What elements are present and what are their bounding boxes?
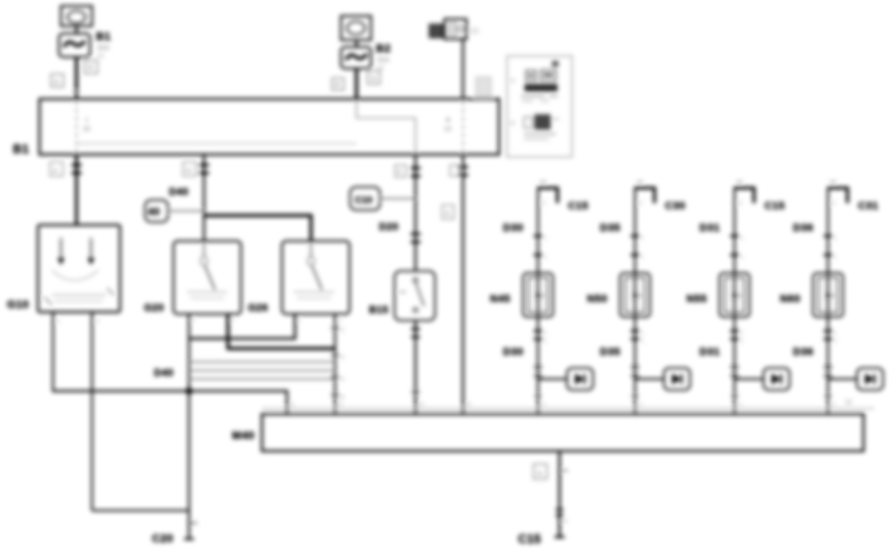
- svg-text:B2: B2: [376, 43, 391, 55]
- connector M1 body: [445, 19, 467, 39]
- connector hook top: [735, 188, 755, 203]
- svg-text:4: 4: [341, 355, 344, 361]
- inline connector ticks: [411, 329, 420, 337]
- connector D40 symbol: [145, 200, 168, 222]
- junction dot: [186, 388, 193, 395]
- svg-text:30A: 30A: [97, 45, 110, 52]
- pin tick top: [540, 181, 546, 183]
- wire code box: [183, 162, 196, 176]
- svg-text:N: N: [537, 471, 542, 478]
- svg-text:N45: N45: [490, 293, 510, 305]
- svg-text:1: 1: [834, 255, 837, 261]
- svg-text:2: 2: [339, 318, 342, 324]
- svg-text:1: 1: [641, 236, 644, 242]
- svg-text:D31: D31: [700, 346, 720, 358]
- fuse value labels: [97, 45, 110, 60]
- sender G26: [282, 241, 350, 314]
- svg-text:1: 1: [741, 255, 744, 261]
- fuse F2: [341, 47, 371, 69]
- wire B15 to M40: [414, 321, 416, 415]
- wire B1 to G20: [203, 155, 205, 242]
- svg-text:12: 12: [845, 400, 852, 406]
- wire end tick: [555, 536, 565, 538]
- wire vertical N55: [734, 187, 736, 414]
- fusebox B1 body: [40, 99, 500, 155]
- connector hook top: [635, 188, 655, 203]
- inline connector ticks: [411, 234, 421, 242]
- svg-text:D30: D30: [503, 346, 523, 358]
- wire bottom horizontal: [92, 510, 189, 512]
- svg-text:1: 1: [85, 117, 89, 124]
- svg-text:1: 1: [641, 331, 644, 337]
- connector M1 shell: [430, 25, 444, 38]
- svg-text:30: 30: [83, 126, 91, 133]
- wire color code box right: [85, 61, 98, 74]
- ignition device symbol top-middle: [341, 16, 371, 40]
- connector ticks: [731, 367, 739, 376]
- svg-text:D36: D36: [793, 222, 813, 234]
- svg-text:1: 1: [834, 331, 837, 337]
- wire end tick C20: [184, 538, 194, 540]
- inline connector ticks: [556, 510, 568, 522]
- connector hook top: [828, 188, 848, 203]
- M40 pin numbers: [291, 400, 852, 408]
- svg-text:N55: N55: [687, 293, 707, 305]
- body computer M40: [262, 414, 864, 451]
- internal faint bus line: [77, 143, 357, 145]
- relay G10: [38, 225, 120, 312]
- svg-text:1: 1: [192, 318, 195, 324]
- ground symbol: [764, 368, 790, 390]
- faint multi-wire lines: [189, 362, 335, 379]
- ignition device symbol top-left: [61, 6, 92, 26]
- wire: [75, 26, 77, 34]
- inline connector ticks: [458, 167, 468, 175]
- wire down to B1: [75, 57, 78, 100]
- tick: [731, 395, 738, 397]
- svg-text:1: 1: [641, 255, 644, 261]
- svg-text:2: 2: [341, 328, 344, 334]
- inline connector ticks: [631, 236, 645, 261]
- pin mark: [72, 91, 80, 93]
- branch wire to ground: [828, 378, 857, 380]
- wire color code box left: [51, 74, 64, 87]
- svg-text:R: R: [88, 65, 93, 72]
- pin tick top: [737, 181, 743, 183]
- shaded tag above B1: [476, 77, 491, 97]
- inline connector ticks: [72, 165, 82, 173]
- inline connector ticks: [824, 236, 838, 261]
- connector link wire: [168, 210, 204, 212]
- svg-text:(2): (2): [470, 28, 479, 35]
- pin label B: [444, 117, 452, 133]
- svg-text:B1: B1: [96, 31, 111, 43]
- wire to M40 horizontal: [53, 391, 287, 414]
- svg-text:1: 1: [544, 339, 547, 345]
- connector ticks: [824, 367, 832, 376]
- svg-text:B1: B1: [13, 142, 29, 156]
- svg-text:D20: D20: [379, 222, 399, 233]
- wire code box: [442, 205, 454, 219]
- svg-text:B: B: [398, 170, 402, 176]
- connector ticks: [534, 367, 542, 376]
- label C10: [350, 187, 380, 210]
- wire M1 down to M40: [462, 155, 464, 415]
- inline connector ticks: [824, 331, 838, 345]
- tick: [535, 395, 542, 397]
- svg-text:8: 8: [341, 395, 344, 401]
- connector ticks: [631, 367, 639, 376]
- svg-text:D31: D31: [700, 222, 720, 234]
- inline connector ticks: [730, 331, 744, 345]
- svg-text:C31: C31: [858, 200, 878, 212]
- svg-text:1: 1: [57, 319, 60, 325]
- component N50: [620, 273, 650, 317]
- svg-text:1: 1: [834, 339, 837, 345]
- connector link wire: [380, 198, 416, 200]
- svg-text:1: 1: [544, 331, 547, 337]
- svg-text:1: 1: [834, 236, 837, 242]
- legend small text rows: [521, 96, 558, 101]
- branch wire to ground: [735, 378, 764, 380]
- svg-text:30A: 30A: [377, 57, 390, 64]
- connector hook top: [538, 188, 558, 203]
- tick: [412, 391, 420, 393]
- svg-text:A: A: [53, 168, 58, 175]
- inline connector ticks: [199, 165, 209, 173]
- legend icon 2: [524, 115, 559, 129]
- svg-text:1: 1: [641, 339, 644, 345]
- svg-text:3: 3: [639, 402, 642, 408]
- svg-text:D40: D40: [169, 187, 189, 198]
- svg-text:2: 2: [231, 318, 234, 324]
- ground symbol: [664, 368, 690, 390]
- svg-text:1: 1: [298, 318, 301, 324]
- branch wire to ground: [538, 378, 567, 380]
- tick: [825, 395, 832, 397]
- inline connector ticks dark: [411, 168, 421, 176]
- svg-text:R: R: [445, 211, 450, 218]
- switch B15: [395, 271, 436, 321]
- G10 pin ticks: [57, 319, 99, 325]
- svg-text:G20: G20: [144, 303, 164, 314]
- svg-text:C10: C10: [355, 195, 373, 205]
- svg-text:G26: G26: [248, 303, 268, 314]
- svg-text:10: 10: [97, 54, 104, 60]
- svg-text:B15: B15: [369, 305, 389, 316]
- inline connector ticks: [534, 236, 548, 261]
- wire code box: [50, 162, 63, 176]
- wire link G20pin1-G26pin1: [189, 314, 295, 339]
- svg-text:6: 6: [341, 377, 344, 383]
- tick near C20: [190, 522, 197, 524]
- wire link G20pin2-G26pin2 thick: [228, 314, 335, 349]
- ground symbol: [567, 368, 593, 390]
- ground symbol: [857, 368, 883, 390]
- svg-text:2: 2: [339, 402, 342, 408]
- fuse F1: [59, 34, 90, 58]
- inline connector ticks: [730, 236, 744, 261]
- wire color code box left: [332, 78, 344, 90]
- svg-text:15: 15: [444, 126, 452, 133]
- internal routed wire: [357, 100, 416, 153]
- legend title bar: [525, 85, 557, 92]
- connector ticks on wire: [331, 328, 344, 401]
- legend inset box: [507, 56, 572, 157]
- svg-text:N: N: [186, 168, 191, 175]
- inline connector ticks: [631, 331, 645, 345]
- wire color code box right: [368, 71, 381, 84]
- pin label 1 (+30): [83, 117, 91, 133]
- svg-text:D30: D30: [503, 222, 523, 234]
- tick: [632, 395, 639, 397]
- branch wire to ground: [635, 378, 664, 380]
- wire down through B1: [462, 39, 464, 100]
- svg-text:C20: C20: [152, 533, 173, 545]
- svg-text:B: B: [446, 117, 450, 124]
- wire G10 pin1 down: [52, 312, 54, 392]
- G20 G26 pin ticks: [192, 318, 342, 324]
- wire B1 pinB down: [414, 155, 416, 272]
- wire vertical N50: [634, 187, 636, 414]
- svg-text:3: 3: [420, 402, 423, 408]
- wire B1 pin1 to G10: [75, 155, 78, 226]
- wire code box small: [450, 165, 459, 176]
- svg-text:D40: D40: [154, 368, 174, 379]
- internal pass-through wire dashed left: [76, 101, 78, 153]
- wire G20 pin1 down to C20: [188, 314, 190, 539]
- wire: [355, 40, 357, 47]
- svg-text:A: A: [54, 79, 59, 86]
- svg-text:N60: N60: [780, 293, 800, 305]
- svg-text:1: 1: [544, 255, 547, 261]
- svg-text:1: 1: [741, 236, 744, 242]
- svg-text:M40: M40: [232, 430, 255, 442]
- svg-text:3: 3: [832, 402, 835, 408]
- internal pass-through wire dashed right: [462, 101, 464, 153]
- svg-text:1: 1: [291, 402, 294, 408]
- svg-text:C15: C15: [765, 200, 785, 212]
- pin tick: [562, 470, 568, 472]
- svg-text:1: 1: [544, 236, 547, 242]
- svg-text:1: 1: [741, 339, 744, 345]
- wire code box: [395, 165, 406, 177]
- svg-text:C15: C15: [518, 532, 541, 546]
- wire G10 pin2 down: [91, 312, 93, 511]
- pin tick top: [830, 181, 836, 183]
- svg-text:2: 2: [96, 319, 99, 325]
- wire down to B1: [355, 69, 358, 101]
- svg-text:N50: N50: [587, 293, 607, 305]
- inline connector ticks: [534, 331, 548, 345]
- component N60: [813, 273, 843, 317]
- svg-text:3: 3: [739, 402, 742, 408]
- wire G26 pin2 to M40: [334, 314, 336, 414]
- connector strip line above M40: [262, 408, 874, 410]
- branch wire to G26: [204, 216, 311, 242]
- svg-text:4: 4: [467, 402, 470, 408]
- component N55: [720, 273, 750, 317]
- sender G20: [174, 241, 242, 314]
- svg-text:3: 3: [542, 402, 545, 408]
- svg-text:40: 40: [148, 207, 160, 218]
- wire code box: [534, 464, 548, 479]
- svg-text:D35: D35: [600, 222, 620, 234]
- pin tick top: [637, 181, 643, 183]
- component N45: [523, 273, 553, 317]
- svg-text:C15: C15: [568, 200, 588, 212]
- wire vertical N45: [537, 187, 539, 414]
- legend fuse icons: [526, 62, 558, 81]
- svg-text:R: R: [335, 82, 340, 89]
- svg-text:N: N: [371, 76, 376, 83]
- svg-text:D36: D36: [793, 346, 813, 358]
- wire vertical N60: [827, 187, 829, 414]
- svg-text:G10: G10: [7, 299, 29, 311]
- legend text rows 2: [524, 134, 556, 139]
- wire M40 bottom to C15: [558, 451, 560, 537]
- fuse value labels: [377, 57, 390, 72]
- svg-text:C30: C30: [665, 200, 685, 212]
- svg-text:D35: D35: [600, 346, 620, 358]
- svg-text:1: 1: [741, 331, 744, 337]
